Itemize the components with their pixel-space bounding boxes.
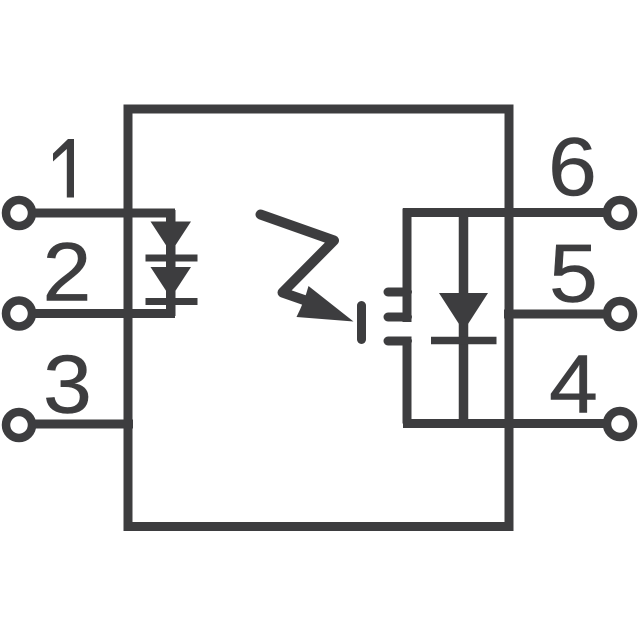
- package outline box: [128, 109, 509, 527]
- pin 3 terminal circle: [6, 412, 32, 438]
- wire pin5 to box: [504, 310, 604, 319]
- svg-text:2: 2: [43, 227, 92, 319]
- LED D2 triangle: [151, 267, 192, 298]
- svg-text:6: 6: [548, 121, 597, 213]
- MOSFET stub middle: [388, 313, 408, 322]
- body diode cathode bar: [431, 337, 497, 345]
- svg-text:4: 4: [549, 339, 598, 431]
- svg-text:3: 3: [43, 339, 92, 431]
- LED D1 cathode bar: [146, 255, 198, 262]
- body diode triangle: [439, 293, 488, 331]
- pin 1 label: [53, 139, 74, 198]
- LED D2 cathode bar: [146, 298, 198, 305]
- wire pin4 / output rect bottom edge: [403, 419, 604, 428]
- pin 5 terminal circle: [607, 301, 633, 327]
- pin 1 terminal circle: [6, 200, 32, 226]
- body diode vertical wire: [459, 209, 469, 424]
- wire pin3 to box: [31, 420, 133, 429]
- MOSFET stub upper: [388, 288, 408, 297]
- wire pin6 / output rect top edge: [403, 208, 604, 217]
- light emission zigzag wire: [261, 215, 335, 301]
- LED D1 triangle: [151, 222, 192, 253]
- MOSFET drain-source electrode lower segment: [403, 337, 412, 424]
- pin 6 terminal circle: [607, 200, 633, 226]
- MOSFET drain-source electrode upper segment: [403, 209, 412, 323]
- LED string vertical wire: [166, 210, 176, 316]
- wire pin1 to LED anode: [31, 209, 175, 218]
- MOSFET stub lower: [388, 337, 408, 346]
- light arrow head: [297, 286, 354, 322]
- pin 2 terminal circle: [6, 301, 32, 327]
- wire pin2 to LED cathode: [31, 309, 175, 318]
- pin 4 terminal circle: [607, 411, 633, 437]
- svg-text:5: 5: [549, 228, 598, 320]
- MOSFET gate bar: [357, 306, 366, 340]
